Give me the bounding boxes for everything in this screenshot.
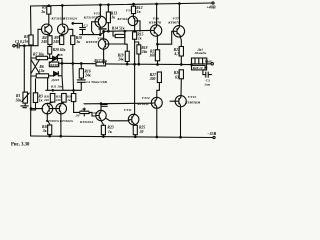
- svg-text:КТ807Б: КТ807Б: [148, 20, 162, 24]
- capacitor C5 on rail A: [102, 104, 107, 107]
- node R18 rail: [138, 63, 140, 65]
- wire R26 down to VT13: [180, 79, 182, 96]
- node R5 top: [48, 5, 50, 7]
- wire top +40V rail: [31, 3, 212, 6]
- node bottom rail x103.4: [103, 136, 105, 138]
- wire lower rail A: [84, 102, 152, 105]
- wire VT8 collector to R31: [47, 102, 52, 104]
- resistor R25: [133, 125, 137, 134]
- svg-text:240: 240: [55, 98, 61, 102]
- svg-text:1к: 1к: [138, 36, 142, 40]
- wire feedback x72.8 vertical: [73, 45, 80, 113]
- transistor VT12: [151, 97, 162, 108]
- node mirror bus x52.8: [52, 90, 54, 92]
- svg-text:1к: 1к: [39, 99, 43, 103]
- svg-text:VT5: VT5: [97, 36, 104, 40]
- arrow trimmer over diode: [50, 54, 59, 62]
- node VT3 emitter: [99, 34, 101, 36]
- wire bottom -35V rail: [31, 136, 213, 138]
- node bottom rail x156.8: [156, 136, 158, 138]
- wire left vertical line: [30, 6, 33, 136]
- wire VT9 emitter down: [60, 113, 62, 136]
- wire R5 to VT1: [48, 6, 50, 25]
- svg-text:КТ361Г: КТ361Г: [116, 17, 130, 21]
- wire R23 down: [102, 135, 104, 137]
- ground under pot: [21, 103, 28, 108]
- wire cross X: [31, 60, 40, 74]
- terminal +40V: [212, 2, 214, 4]
- svg-text:R14 51к: R14 51к: [112, 27, 125, 31]
- node mid rail x81.3: [81, 63, 83, 65]
- node rail A x101: [100, 103, 102, 105]
- node VT8 stub: [30, 108, 32, 110]
- wire branch to R18: [135, 42, 139, 45]
- wire mirror top bus: [46, 63, 82, 90]
- wire VT10 to VT11 base: [106, 118, 130, 120]
- wire VT4 collector down: [134, 26, 136, 32]
- resistor R5 2k top: [47, 6, 51, 14]
- resistor R27: [157, 72, 161, 83]
- wire VT12 emitter down: [156, 108, 158, 137]
- resistor R12: [131, 6, 135, 13]
- wire R3 leads: [31, 79, 36, 110]
- wire VT5 base loop: [110, 36, 125, 44]
- svg-text:24к: 24к: [141, 50, 148, 54]
- transistor VT10: [96, 110, 106, 120]
- svg-text:Д223: Д223: [50, 78, 59, 82]
- svg-text:240: 240: [40, 40, 47, 44]
- node R19 rail: [126, 63, 128, 65]
- svg-text:1к: 1к: [111, 16, 115, 20]
- svg-text:50к: 50к: [16, 98, 22, 102]
- resistor R3 (beside left line): [33, 93, 37, 103]
- svg-text:1к: 1к: [25, 39, 29, 43]
- transistor VT1: [41, 24, 52, 36]
- svg-text:С2: С2: [84, 23, 88, 27]
- capacitor C2 compensation: [73, 23, 86, 34]
- svg-text:КТ815Г: КТ815Г: [85, 40, 99, 44]
- node bottom rail x49.7: [49, 135, 51, 137]
- wire R20 to diode row: [50, 54, 62, 63]
- resistor R23: [101, 125, 105, 134]
- node VT2 top: [62, 5, 64, 7]
- node mid rail x134.6: [134, 63, 136, 65]
- wire R22 leads: [180, 36, 181, 64]
- node bottom rail x180.5: [180, 136, 182, 138]
- node R14 right top: [124, 31, 126, 33]
- svg-text:160: 160: [149, 54, 155, 58]
- transistor VT13: [170, 96, 186, 107]
- node mirror bus x73.5: [73, 90, 75, 92]
- svg-text:R5: R5: [42, 5, 47, 9]
- resistor R21: [155, 50, 159, 61]
- svg-text:1к: 1к: [137, 10, 141, 14]
- svg-text:30: 30: [75, 113, 80, 117]
- wire VT8 base stub left: [31, 108, 43, 110]
- svg-text:1к: 1к: [67, 98, 71, 102]
- node mid rail x157.5: [157, 64, 159, 66]
- wire R8 leads: [31, 75, 62, 77]
- node C2 top on feedback line: [72, 23, 74, 25]
- svg-text:VT13: VT13: [188, 95, 196, 99]
- capacitor C3 zobel: [203, 68, 212, 78]
- resistor R22: [179, 47, 183, 57]
- wire R30 down: [49, 135, 51, 136]
- diode VD2: [54, 72, 59, 76]
- terminal output: [211, 63, 213, 65]
- svg-text:300: 300: [149, 77, 156, 81]
- wire VT3 collector to rail: [99, 5, 101, 16]
- resistor in rail KT208 box: [49, 62, 58, 67]
- wire VT2 base: [68, 29, 73, 35]
- svg-text:1к: 1к: [108, 130, 112, 134]
- wire VT9 collector to R32: [61, 102, 64, 104]
- svg-text:КТ3102А: КТ3102А: [59, 119, 74, 123]
- svg-text:КТ807Б: КТ807Б: [167, 20, 181, 24]
- svg-text:VT12: VT12: [142, 96, 150, 100]
- resistor R17 feedback: [96, 62, 106, 66]
- wire input to VT1 base: [38, 29, 42, 45]
- svg-text:30мкГн: 30мкГн: [194, 51, 207, 55]
- resistor R31: [50, 94, 55, 103]
- transistor VT2: [58, 24, 69, 36]
- node rail output block: [191, 64, 193, 66]
- wire R25 down: [134, 135, 136, 137]
- transistor VT9 mirror: [56, 103, 67, 114]
- wire VT5 emitter down: [103, 49, 105, 64]
- wire R4 down: [49, 45, 51, 47]
- transistor VT6: [150, 25, 161, 36]
- node VT6 emitter R21: [157, 43, 159, 45]
- svg-text:КТ3102А: КТ3102А: [62, 17, 78, 21]
- svg-text:КТ3107А: КТ3107А: [45, 119, 60, 123]
- svg-text:24к: 24к: [84, 74, 91, 78]
- svg-text:R11 10к: R11 10к: [51, 85, 63, 89]
- node mid rail x62: [61, 63, 63, 65]
- resistor R9: [60, 36, 64, 45]
- node input junction: [24, 45, 26, 47]
- resistor R15: [133, 32, 137, 39]
- wire VT6 collector to rail: [156, 4, 158, 25]
- svg-text:КТ3107А: КТ3107А: [83, 16, 99, 20]
- svg-text:Рис. 3.30: Рис. 3.30: [11, 143, 30, 148]
- resistor R32: [62, 94, 67, 103]
- resistor R19: [125, 51, 129, 61]
- wire divider line down: [23, 46, 25, 92]
- capacitor C4 electrolytic: [77, 80, 85, 84]
- wire R15 down to rail: [134, 39, 136, 64]
- wire R13 leads: [107, 5, 109, 32]
- wire VT10 collector up: [100, 103, 102, 110]
- svg-text:24к: 24к: [117, 58, 124, 62]
- transistor VT11: [128, 114, 139, 125]
- node VT6 top: [156, 3, 158, 5]
- svg-text:30: 30: [139, 130, 144, 134]
- svg-text:63: 63: [175, 75, 179, 79]
- svg-text:4,7: 4,7: [173, 52, 179, 56]
- svg-text:R17 51к: R17 51к: [94, 59, 107, 63]
- wire R21 leads: [157, 44, 159, 64]
- diode VD1: [53, 56, 58, 60]
- diode VD4 cluster: [80, 108, 96, 116]
- svg-text:−35В: −35В: [207, 131, 216, 136]
- svg-text:R7 36к: R7 36к: [33, 53, 44, 57]
- wire R27 to VT12: [157, 83, 160, 98]
- resistor R20: [48, 47, 52, 55]
- svg-text:КТ3102А: КТ3102А: [79, 120, 94, 124]
- svg-text:С1 0,1: С1 0,1: [15, 40, 25, 44]
- node R13 bottom: [108, 30, 110, 32]
- wire R7 left: [31, 57, 50, 59]
- potentiometer R1 50k: [23, 92, 28, 103]
- wire R18 down to rail: [138, 54, 140, 64]
- resistor R2 (in left line): [29, 35, 33, 45]
- wire VT13 emitter down: [180, 106, 182, 137]
- wire VT7 collector to rail: [178, 4, 180, 27]
- svg-text:КТ805БМ: КТ805БМ: [184, 100, 201, 104]
- resistor R16: [79, 69, 83, 78]
- node bottom rail x135.3: [135, 136, 137, 138]
- svg-text:Д4: Д4: [81, 107, 86, 111]
- capacitor C1: [15, 43, 38, 48]
- resistor R18: [137, 45, 141, 54]
- svg-text:Вых.: Вых.: [204, 59, 213, 63]
- transistor VT5: [98, 39, 110, 49]
- svg-text:R28 10: R28 10: [193, 66, 203, 70]
- node R13 top: [108, 4, 110, 6]
- resistor R28 output: [192, 65, 206, 70]
- svg-text:VT10: VT10: [89, 111, 97, 115]
- svg-text:1к: 1к: [76, 40, 80, 44]
- transistor VT4: [128, 16, 140, 31]
- wire mid output rail: [59, 63, 192, 64]
- svg-text:R20 62к: R20 62к: [53, 48, 66, 52]
- svg-text:3к: 3к: [42, 129, 47, 133]
- svg-text:13к: 13к: [39, 69, 45, 73]
- wire output network: [192, 58, 211, 68]
- svg-text:С4 50мк×16В: С4 50мк×16В: [86, 80, 107, 84]
- resistor R30: [48, 125, 52, 135]
- resistor R33: [71, 94, 76, 102]
- terminal -35V: [213, 136, 215, 138]
- wire VAS node: [80, 30, 151, 34]
- node R12 top: [133, 3, 135, 5]
- node VT3 top: [100, 4, 102, 6]
- node mid rail x181.3: [181, 64, 183, 66]
- resistor R14 horizontal: [115, 34, 125, 37]
- node bottom rail x62: [60, 135, 62, 137]
- transistor VT7: [173, 26, 184, 37]
- wire R16 leads: [80, 64, 82, 80]
- svg-text:+40В: +40В: [207, 5, 216, 10]
- transistor VT3: [92, 16, 107, 34]
- svg-text:VT11: VT11: [124, 108, 132, 112]
- node mid rail x72.8: [72, 63, 74, 65]
- wire R14 leads: [113, 31, 125, 36]
- node VT4 bottom: [134, 30, 136, 32]
- resistor R8 lower row: [36, 74, 48, 78]
- node VT5 top: [103, 31, 105, 33]
- wire VT2 top to rail: [61, 6, 63, 25]
- input terminal: [13, 45, 15, 47]
- svg-text:1мк: 1мк: [204, 82, 210, 86]
- resistor R7: [36, 56, 47, 59]
- svg-text:2к: 2к: [40, 10, 45, 14]
- wire VT8 emitter to R30: [47, 113, 49, 125]
- transistor VT8 mirror: [42, 103, 59, 114]
- node VT7 top: [179, 3, 181, 5]
- svg-text:Д18: Д18: [56, 53, 63, 57]
- wire VT10 emitter to R23: [101, 121, 103, 126]
- inductor L1 output: [192, 58, 207, 64]
- wire VT6 emitter path to VT7 base: [157, 31, 174, 44]
- wire VT5 collector up: [103, 31, 105, 38]
- wire R12 leads: [132, 4, 134, 16]
- wire VT11 collector up: [134, 64, 136, 114]
- resistor R10: [71, 36, 75, 45]
- svg-text:240: 240: [43, 98, 49, 102]
- svg-text:240: 240: [52, 40, 59, 44]
- wire R19 leads: [125, 44, 127, 64]
- resistor R26: [179, 70, 183, 79]
- resistor R13: [106, 12, 110, 23]
- pot R1 arrow: [22, 93, 29, 102]
- resistor R4: [48, 36, 52, 45]
